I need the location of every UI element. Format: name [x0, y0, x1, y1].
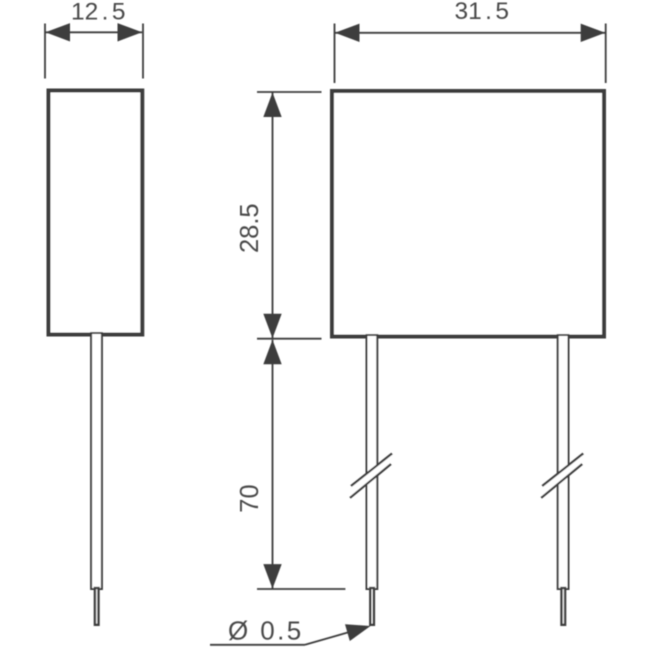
- svg-text:31.5: 31.5: [455, 0, 510, 25]
- dimension 28.5 arrowhead bottom: [263, 314, 281, 339]
- dimension 12.5 extension line right: [142, 24, 144, 79]
- lead wire front view right: [558, 335, 569, 589]
- dimension 31.5 line: [335, 32, 605, 34]
- component body front view: [332, 91, 604, 337]
- dimension 31.5 extension line left: [334, 24, 336, 84]
- lead tip side view: [95, 588, 99, 625]
- dimension 12.5 arrowhead left: [46, 23, 71, 41]
- lead wire front view left: [367, 335, 378, 589]
- dimension 28.5 line: [272, 93, 274, 339]
- dimension 70 arrowhead top: [263, 340, 281, 365]
- break mark slash upper left lead: [351, 454, 392, 487]
- dimension 70 extension line bottom: [257, 588, 345, 590]
- dimension 12.5 extension line left: [44, 24, 46, 79]
- break mark slash upper right lead: [542, 454, 583, 487]
- dimension 70 line: [272, 340, 274, 589]
- break mark gap left lead: [350, 454, 392, 498]
- lead wire side view: [91, 333, 102, 589]
- svg-text:Ø 0.5: Ø 0.5: [228, 616, 304, 646]
- leader line diagonal for diameter label: [305, 631, 352, 645]
- break mark gap right lead: [541, 454, 583, 498]
- svg-text:12.5: 12.5: [71, 0, 126, 26]
- leader line underline for diameter label: [210, 644, 305, 646]
- dimension 31.5 arrowhead left: [335, 24, 360, 42]
- dimension 28.5 extension line top: [257, 91, 322, 93]
- svg-text:28.5: 28.5: [236, 203, 264, 253]
- dimension 28.5 extension line bottom: [257, 338, 322, 340]
- svg-text:70: 70: [236, 484, 264, 512]
- dimension 70 arrowhead bottom: [263, 564, 281, 589]
- lead tip front view left: [370, 588, 374, 625]
- dimension 31.5 arrowhead right: [581, 24, 606, 42]
- leader arrowhead: [345, 624, 371, 641]
- break mark slash lower left lead: [350, 464, 391, 498]
- dimension 31.5 extension line right: [605, 24, 607, 84]
- break mark slash lower right lead: [541, 464, 582, 498]
- dimension 12.5 arrowhead right: [118, 23, 143, 41]
- component body side view: [49, 91, 143, 335]
- dimension 28.5 arrowhead top: [263, 93, 281, 118]
- lead tip front view right: [562, 588, 566, 625]
- dimension 12.5 line: [46, 31, 143, 33]
